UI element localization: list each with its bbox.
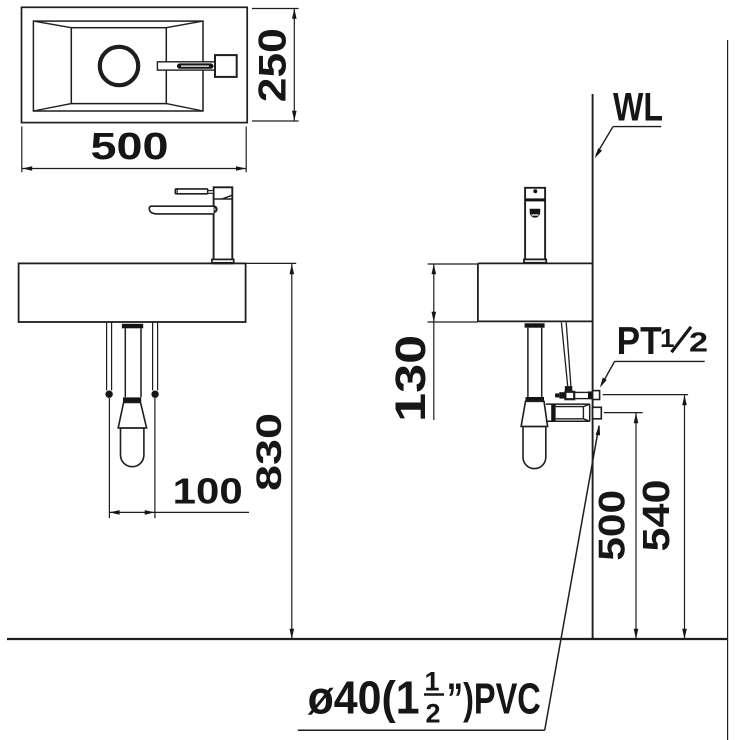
svg-text:250: 250	[252, 28, 295, 102]
svg-text:WL: WL	[613, 86, 663, 130]
svg-text:500: 500	[91, 126, 169, 168]
svg-text:830: 830	[250, 413, 289, 491]
svg-text:1: 1	[424, 667, 439, 697]
svg-text:130: 130	[387, 335, 435, 422]
svg-text:540: 540	[636, 480, 678, 552]
svg-text:500: 500	[592, 490, 633, 561]
svg-text:2: 2	[425, 699, 440, 729]
svg-text:PT: PT	[617, 320, 662, 363]
svg-text:ø40(1: ø40(1	[308, 672, 420, 724]
svg-text:”)PVC: ”)PVC	[447, 675, 541, 724]
svg-text:2: 2	[689, 327, 708, 358]
svg-text:1: 1	[660, 323, 674, 353]
svg-text:100: 100	[173, 471, 243, 512]
